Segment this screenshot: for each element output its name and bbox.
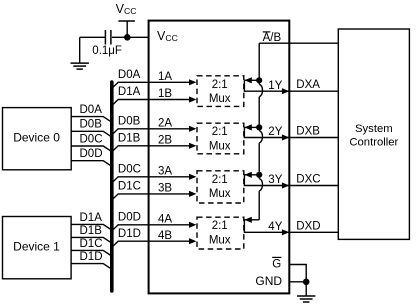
svg-text:D1C: D1C xyxy=(118,181,141,193)
wire G enable to ground xyxy=(289,265,306,282)
Device 1 xyxy=(3,217,72,279)
wire output 2Y to DXB xyxy=(244,127,338,140)
svg-text:DXB: DXB xyxy=(296,126,320,138)
mux U1.1 2:1 Mux (dashed) xyxy=(197,76,244,107)
wire D1B to pin 2B xyxy=(113,143,197,151)
svg-text:D0A: D0A xyxy=(80,104,103,116)
capacitor C1 0.1uF xyxy=(105,30,111,45)
svg-text:DXA: DXA xyxy=(296,79,320,91)
wire select tap to mux 2 xyxy=(244,124,259,130)
wire D1D (Device 1 to bus) xyxy=(71,264,111,269)
wire select tap to mux 1 xyxy=(244,77,259,83)
System Controller xyxy=(338,29,409,239)
bus (shared data bundle) xyxy=(110,82,114,291)
wire output 1Y to DXA xyxy=(244,80,338,94)
svg-text:Device 1: Device 1 xyxy=(13,239,60,253)
wire D1C (Device 1 to bus) xyxy=(71,250,111,255)
svg-text:3A: 3A xyxy=(158,166,172,178)
svg-text:G: G xyxy=(272,258,281,270)
ground (IC) xyxy=(297,282,315,302)
wire D1C to pin 3B xyxy=(113,191,197,199)
svg-text:D1B: D1B xyxy=(80,225,103,237)
net A/B select wire (to System Controller) xyxy=(259,42,338,44)
svg-text:DXC: DXC xyxy=(296,174,320,186)
svg-text:Mux: Mux xyxy=(209,235,231,247)
wire D1B (Device 1 to bus) xyxy=(71,237,111,242)
svg-text:Mux: Mux xyxy=(209,93,231,105)
svg-text:D0B: D0B xyxy=(80,119,103,131)
mux U1.3 2:1 Mux (dashed) xyxy=(197,171,244,203)
svg-text:D1A: D1A xyxy=(118,86,141,98)
svg-text:2:1: 2:1 xyxy=(212,220,228,232)
svg-text:4Y: 4Y xyxy=(268,221,282,233)
svg-text:2B: 2B xyxy=(158,135,172,147)
svg-text:A/B: A/B xyxy=(263,32,282,44)
svg-text:4A: 4A xyxy=(158,214,172,226)
svg-text:Mux: Mux xyxy=(209,188,231,200)
svg-text:D1D: D1D xyxy=(118,228,141,240)
wire D0B (Device 0 to bus) xyxy=(71,131,111,136)
Device 0 xyxy=(3,108,72,170)
junction dot select tap 1 xyxy=(256,77,262,83)
svg-text:D0D: D0D xyxy=(80,148,103,160)
junction dot select tap 2 xyxy=(256,124,262,130)
junction dot GND node xyxy=(303,279,310,286)
svg-text:D1B: D1B xyxy=(118,133,141,145)
svg-text:4B: 4B xyxy=(158,230,172,242)
IC U1 quad 2:1 mux xyxy=(149,21,290,294)
svg-text:D1C: D1C xyxy=(80,238,103,250)
svg-text:DXD: DXD xyxy=(296,220,320,232)
svg-text:3B: 3B xyxy=(158,183,172,195)
node label A/B (A overbar) xyxy=(263,32,282,44)
wire output 3Y to DXC xyxy=(244,175,338,189)
wire select line (vertical) xyxy=(259,43,262,220)
svg-text:2A: 2A xyxy=(158,118,172,130)
wire D1D to pin 4B xyxy=(113,238,197,246)
svg-text:D0D: D0D xyxy=(118,212,141,224)
svg-text:2:1: 2:1 xyxy=(212,79,228,91)
svg-text:System: System xyxy=(355,123,393,135)
mux U1.4 2:1 Mux (dashed) xyxy=(197,217,244,249)
wire capacitor to ground xyxy=(80,36,106,38)
svg-text:2:1: 2:1 xyxy=(212,126,228,138)
wire D0D to pin 4A xyxy=(113,222,197,230)
wire D0B to pin 2A xyxy=(113,126,197,134)
svg-text:Mux: Mux xyxy=(209,141,231,153)
Vcc supply symbol xyxy=(116,2,137,37)
junction dot select tap 3 xyxy=(256,172,262,178)
svg-text:Device 0: Device 0 xyxy=(13,131,60,145)
svg-text:1A: 1A xyxy=(158,71,172,83)
svg-text:0.1μF: 0.1μF xyxy=(92,45,122,57)
wire select tap to mux 3 xyxy=(244,172,259,178)
svg-text:GND: GND xyxy=(255,274,282,288)
wire D0D (Device 0 to bus) xyxy=(71,161,111,166)
wire D0C (Device 0 to bus) xyxy=(71,146,111,151)
wire Vcc rail to IC xyxy=(112,36,149,38)
wire D0C to pin 3A xyxy=(113,174,197,182)
pin label G (overbar) xyxy=(272,257,281,270)
svg-text:3Y: 3Y xyxy=(268,174,282,186)
junction dot Vcc node xyxy=(124,34,131,41)
svg-text:2Y: 2Y xyxy=(268,126,282,138)
svg-text:1B: 1B xyxy=(158,88,172,100)
svg-text:D1A: D1A xyxy=(80,212,103,224)
wire select tap to mux 4 xyxy=(244,217,259,223)
svg-text:D0B: D0B xyxy=(118,116,141,128)
wire D1A to pin 1B xyxy=(113,96,197,104)
wire D0A to pin 1A xyxy=(113,79,197,87)
ground (decoupling cap) xyxy=(71,37,89,69)
svg-text:Controller: Controller xyxy=(349,136,398,148)
svg-text:D0C: D0C xyxy=(80,133,103,145)
svg-text:D1D: D1D xyxy=(80,251,103,263)
wire output 4Y to DXD xyxy=(244,220,338,236)
mux U1.2 2:1 Mux (dashed) xyxy=(197,123,244,154)
wire D0A (Device 0 to bus) xyxy=(71,117,111,122)
wire D1A (Device 1 to bus) xyxy=(71,224,111,229)
wire GND pin xyxy=(289,281,306,283)
svg-text:2:1: 2:1 xyxy=(212,174,228,186)
svg-text:D0A: D0A xyxy=(118,69,141,81)
svg-text:D0C: D0C xyxy=(118,164,141,176)
svg-text:1Y: 1Y xyxy=(268,80,282,92)
